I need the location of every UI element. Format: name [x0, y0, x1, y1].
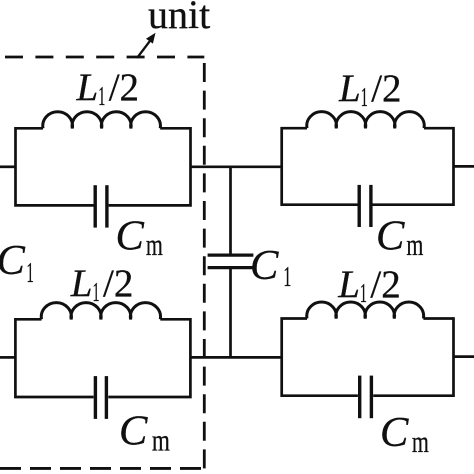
svg-text:Cm: Cm [119, 408, 170, 458]
block TL: rectangle body [16, 128, 191, 205]
wire: center shunt branch lower segment [229, 268, 232, 357]
svg-text:Cm: Cm [116, 212, 163, 262]
svg-text:Cm: Cm [380, 409, 429, 459]
svg-text:C1: C1 [0, 237, 34, 289]
block BR: rectangle body [282, 319, 454, 396]
wire: bottom middle (BL block to BR block through node) [191, 356, 282, 359]
inductor L1/2 (bottom-right) [307, 302, 424, 319]
svg-text:L1/2: L1/2 [76, 66, 140, 111]
inductor L1/2 (top-right) [307, 112, 424, 129]
dashed unit-cell box: top edge [5, 56, 204, 59]
svg-text:C1: C1 [250, 242, 291, 293]
capacitor Cm (top-left): right plate [105, 185, 108, 227]
capacitor C1 (shunt): top plate [208, 254, 254, 257]
svg-text:L1/2: L1/2 [338, 67, 402, 112]
wire: right bottom port stub [454, 355, 474, 358]
wire: center shunt branch upper segment [229, 167, 232, 255]
dashed unit-cell box: bottom edge [0, 467, 201, 470]
inductor L1/2 (top-left) [43, 112, 161, 129]
svg-text:unit: unit [148, 0, 210, 37]
wire: left bottom port stub [0, 356, 16, 359]
capacitor Cm (top-right): left plate [358, 185, 361, 227]
dashed unit-cell box: right edge [203, 63, 206, 468]
capacitor Cm (bottom-right): left plate [358, 376, 361, 419]
block TR: rectangle body [282, 128, 454, 205]
capacitor Cm (bottom-left): left plate [94, 376, 97, 419]
svg-text:L1/2: L1/2 [70, 262, 134, 307]
wire: left top port stub [0, 165, 16, 168]
capacitor C1 (shunt): bottom plate [208, 266, 254, 269]
svg-text:Cm: Cm [376, 212, 423, 262]
inductor L1/2 (bottom-left) [41, 303, 160, 320]
capacitor Cm (bottom-left): right plate [105, 376, 108, 419]
block BL: rectangle body [15, 319, 190, 397]
svg-text:L1/2: L1/2 [337, 263, 401, 308]
capacitor Cm (top-left): left plate [93, 185, 96, 227]
arrow from unit label to dashed box [137, 40, 151, 58]
wire: top middle (TL block to TR block through node) [191, 165, 282, 168]
wire: right top port stub [454, 165, 474, 168]
capacitor Cm (bottom-right): right plate [370, 376, 373, 419]
capacitor Cm (top-right): right plate [369, 185, 372, 227]
